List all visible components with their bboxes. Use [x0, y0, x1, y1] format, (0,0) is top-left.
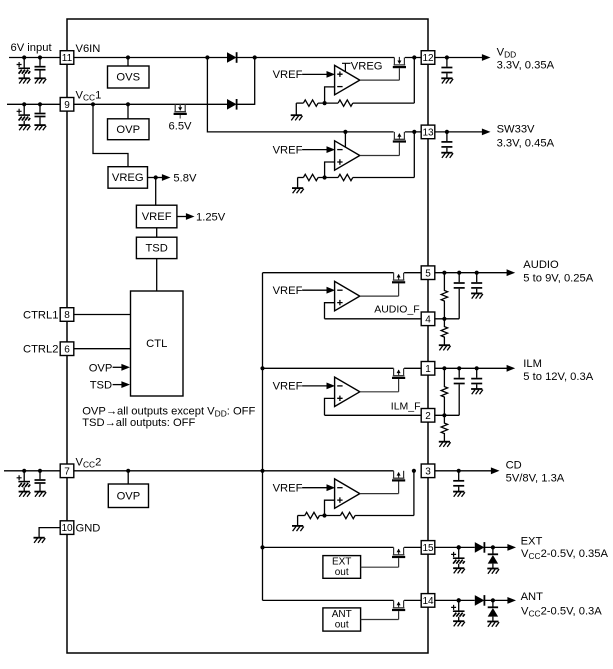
wire diode1 to node A [237, 57, 395, 59]
node c2 [475, 271, 479, 275]
svg-text:VREG: VREG [112, 172, 144, 184]
svg-text:OVP: OVP [117, 490, 141, 502]
svg-text:2: 2 [425, 411, 431, 422]
wire VREG to VREF [155, 178, 157, 206]
wire VDD output [435, 57, 483, 59]
block VREG [108, 167, 148, 189]
wire op-amp output to gate CD [360, 493, 399, 495]
op-amp SW33V [335, 141, 360, 170]
wire SW33V output [435, 131, 483, 133]
wire CTRL1 [74, 314, 131, 316]
transistor output VDD [393, 58, 395, 65]
node divider tap CD [322, 513, 326, 517]
svg-text:CTRL1: CTRL1 [23, 309, 58, 321]
wire inverting input to divider [325, 87, 335, 103]
pin 8 [60, 308, 74, 322]
wire feedback pin2 [325, 414, 422, 416]
svg-text:14: 14 [422, 596, 434, 607]
ground divider SW [297, 178, 299, 188]
node feedback pin13 [412, 130, 416, 134]
block TSD [136, 237, 177, 258]
pin 9 [60, 98, 74, 112]
svg-text:5: 5 [425, 268, 431, 279]
svg-text:OVP: OVP [89, 362, 113, 374]
wire feedback vertical pin12 [413, 58, 415, 104]
wire non-inverting input from pin4 [325, 303, 335, 319]
node ant cap [457, 598, 461, 602]
node SW33V supply tap [205, 55, 209, 59]
svg-text:OVS: OVS [116, 72, 140, 84]
wire op-amp output to gate AUDIO [360, 295, 399, 297]
wire VREG output 5.8V [148, 177, 156, 179]
ground ILM R2 [439, 441, 450, 443]
svg-text:ILM_F: ILM_F [391, 400, 421, 412]
svg-text:VREF: VREF [142, 211, 172, 223]
block VREF [136, 205, 177, 228]
op-amp CD [335, 479, 360, 508]
pin 11 [60, 51, 74, 65]
block OVP 2 [108, 484, 148, 508]
pin 5 [421, 266, 435, 280]
svg-text:ANT: ANT [332, 609, 352, 620]
capacitor SW33V output [445, 130, 449, 134]
svg-text:AUDIO_F: AUDIO_F [374, 304, 420, 316]
svg-text:6V input: 6V input [11, 42, 53, 54]
wire SW33V supply [207, 58, 393, 132]
svg-text:V6IN: V6IN [76, 43, 101, 55]
diode D2 [227, 99, 237, 110]
svg-text:ILM: ILM [523, 358, 542, 370]
svg-text:8: 8 [64, 310, 70, 321]
svg-text:1: 1 [425, 364, 431, 375]
wire CTRL2 [74, 348, 131, 350]
wire feedback vertical pin3 [413, 471, 415, 516]
wire op-amp output to gate ILM [360, 391, 399, 393]
resistor AUDIO R1 [441, 273, 447, 319]
svg-text:CTRL2: CTRL2 [23, 344, 58, 356]
wire CD output [435, 470, 492, 472]
pin 6 [60, 342, 74, 356]
svg-text:EXT: EXT [332, 557, 351, 568]
node pin4 ext [442, 317, 446, 321]
wire pin14 to edge [404, 599, 421, 601]
pin 14 [421, 594, 435, 608]
resistor ILM R2 [441, 415, 447, 441]
wire non-inverting input to divider CD [325, 500, 335, 515]
capacitor AUDIO C1 [458, 273, 460, 283]
svg-text:VREF: VREF [273, 285, 303, 297]
node ext clamp [491, 545, 495, 549]
wire non-inverting input to divider [325, 162, 335, 178]
wire EXT out to gate [361, 566, 399, 568]
wire ANT output [435, 599, 475, 601]
node ext cap [457, 545, 461, 549]
svg-text:VREG: VREG [351, 61, 383, 73]
wire VREF output 1.25V [177, 216, 187, 218]
ground divider CD [297, 516, 299, 526]
svg-text:6.5V: 6.5V [169, 121, 193, 133]
node c1 [457, 271, 461, 275]
svg-text:VCC2: VCC2 [76, 456, 102, 469]
svg-text:1.25V: 1.25V [196, 211, 226, 223]
capacitor ILM C1 [458, 368, 460, 378]
transistor output EXT [393, 547, 395, 554]
pin 7 [60, 464, 74, 478]
wire pin15 to edge [404, 546, 421, 548]
svg-text:10: 10 [61, 523, 73, 534]
wire divider line SW [298, 177, 304, 179]
ground divider VDD [295, 103, 297, 115]
wire VREF to TSD [156, 228, 158, 237]
pin 10 [60, 521, 74, 535]
svg-text:3.3V, 0.35A: 3.3V, 0.35A [497, 59, 555, 71]
capacitor electrolytic C-vcc2a [22, 469, 26, 473]
wire pin5 to edge [404, 272, 421, 274]
wire diode2 to node A [237, 103, 255, 105]
wire pin12 to edge [405, 57, 421, 59]
capacitor electrolytic EXT [457, 545, 461, 549]
wire ILM supply [263, 367, 394, 369]
svg-text:out: out [335, 567, 349, 578]
wire TSD to CTL [156, 259, 158, 291]
svg-text:CD: CD [506, 459, 522, 471]
wire EXT supply [263, 546, 394, 548]
wire non-inverting input from pin2 [325, 398, 335, 415]
node supply to SW op-amp [343, 130, 347, 134]
pin 13 [421, 125, 435, 139]
wire EXT output [435, 546, 475, 548]
node EXT supply tap [260, 545, 264, 549]
node divider tap VDD [323, 101, 327, 105]
block OVP [108, 119, 150, 140]
wire op-amp output to gate SW [360, 155, 399, 157]
capacitor ceramic C-in2 [38, 55, 42, 59]
diode ANT clamp [492, 600, 494, 607]
capacitor AUDIO C2 [476, 273, 478, 283]
svg-text:13: 13 [422, 128, 434, 139]
resistor AUDIO R2 [441, 319, 447, 345]
transistor output ILM [393, 368, 395, 375]
svg-text:VCC1: VCC1 [76, 90, 102, 103]
op-amp AUDIO [335, 281, 360, 310]
node divider tap SW [323, 175, 327, 179]
capacitor ceramic C-in4 [38, 102, 42, 106]
IC outline box [67, 19, 428, 653]
pin 3 [421, 464, 435, 478]
diode D1 [227, 52, 237, 63]
diode ANT series [475, 595, 485, 606]
capacitor electrolytic C-in3 [22, 102, 26, 106]
svg-text:VCC2-0.5V, 0.3A: VCC2-0.5V, 0.3A [521, 606, 602, 619]
node ilm c1 [457, 366, 461, 370]
wire VCC2 input line [4, 470, 60, 472]
diode EXT clamp [492, 547, 494, 554]
svg-text:5.8V: 5.8V [173, 172, 197, 184]
wire ANT out to gate [361, 619, 399, 621]
capacitor ceramic C-vcc2b [38, 469, 42, 473]
wire pin2 external [435, 414, 460, 416]
svg-text:CTL: CTL [146, 338, 167, 350]
svg-text:TSD: TSD [90, 380, 112, 392]
capacitor electrolytic ANT [457, 598, 461, 602]
wire AUDIO output [435, 272, 508, 274]
svg-text:11: 11 [62, 53, 73, 64]
wire VCC1 to VREG [93, 104, 128, 166]
wire VCC2 rail [74, 470, 394, 472]
svg-text:9: 9 [64, 100, 70, 111]
node OVP2 tap [126, 469, 130, 473]
svg-text:VREF: VREF [273, 381, 303, 393]
wire feedback pin4 [325, 318, 422, 320]
wire pin4 external [435, 318, 460, 320]
wire pin13 to edge [405, 131, 421, 133]
capacitor electrolytic C-in1 [22, 55, 26, 59]
svg-text:GND: GND [76, 523, 101, 535]
wire divider line VDD [296, 102, 303, 104]
resistor ILM R1 [441, 368, 447, 415]
svg-text:EXT: EXT [521, 535, 543, 547]
block OVS [108, 66, 150, 88]
node bus junction CD [260, 469, 264, 473]
op-amp ILM [335, 377, 360, 406]
svg-text:3: 3 [425, 466, 431, 477]
wire supply bus [262, 273, 264, 601]
block CTL [131, 291, 184, 396]
transistor output ANT [393, 600, 395, 607]
wire feedback vertical pin13 [413, 132, 415, 178]
svg-text:TSD→all outputs: OFF: TSD→all outputs: OFF [82, 417, 195, 429]
pin 1 [421, 362, 435, 376]
wire pin1 to edge [404, 367, 421, 369]
transistor output SW33V [393, 132, 395, 139]
svg-text:VREF: VREF [273, 483, 303, 495]
wire V6IN rail [74, 57, 227, 59]
node r1 [442, 271, 446, 275]
wire VCC1 input line [7, 103, 60, 105]
diode EXT series [475, 542, 485, 553]
capacitor VDD output [445, 55, 449, 59]
node ant clamp [491, 598, 495, 602]
wire ILM output [435, 367, 508, 369]
node OVS tap [126, 55, 130, 59]
svg-text:VREF: VREF [273, 69, 303, 81]
svg-text:SW33V: SW33V [497, 124, 535, 136]
svg-text:5 to 12V, 0.3A: 5 to 12V, 0.3A [523, 371, 593, 383]
wire divider line CD [298, 515, 305, 517]
wire VCC1 rail [74, 103, 227, 105]
svg-text:5V/8V, 1.3A: 5V/8V, 1.3A [506, 473, 565, 485]
svg-text:7: 7 [64, 466, 70, 477]
svg-text:ANT: ANT [521, 591, 544, 603]
svg-text:5 to 9V, 0.25A: 5 to 9V, 0.25A [523, 272, 593, 284]
svg-text:4: 4 [425, 314, 431, 325]
svg-text:6: 6 [64, 344, 70, 355]
pin 10 wire GND [39, 528, 60, 538]
pin 15 [421, 541, 435, 555]
node A [253, 55, 257, 59]
wire V6IN input line [9, 57, 60, 59]
svg-text:12: 12 [422, 53, 434, 64]
wire AUDIO supply [263, 272, 394, 274]
node OVP tap [126, 102, 130, 106]
ground GND pin [34, 537, 45, 539]
transistor output CD [393, 471, 395, 478]
transistor 6.5V clamp [174, 104, 176, 111]
svg-text:OVP: OVP [116, 124, 140, 136]
svg-text:AUDIO: AUDIO [523, 259, 559, 271]
svg-text:TSD: TSD [145, 243, 167, 255]
svg-text:15: 15 [422, 543, 434, 554]
pin 2 [421, 409, 435, 423]
svg-text:3.3V, 0.45A: 3.3V, 0.45A [497, 137, 555, 149]
wire ANT supply [263, 599, 394, 601]
supply stub T on op-amp [342, 63, 351, 71]
op-amp VREG regulator [335, 65, 360, 94]
ground AUDIO R2 [439, 344, 450, 346]
svg-text:VCC2-0.5V, 0.35A: VCC2-0.5V, 0.35A [521, 548, 609, 561]
block ANT out [323, 608, 361, 631]
node VREG tap [91, 102, 95, 106]
block EXT out [323, 556, 361, 579]
node ilm c2 [475, 366, 479, 370]
node pin2 ext [442, 413, 446, 417]
wire after diode [484, 546, 508, 548]
pin 12 [421, 51, 435, 65]
wire op-amp output to gate [360, 79, 399, 81]
svg-text:VDD: VDD [497, 47, 517, 60]
node feedback pin12 [412, 55, 416, 59]
node feedback pin3 [412, 469, 416, 473]
node ILM supply tap [260, 366, 264, 370]
capacitor ILM C2 [476, 368, 478, 378]
transistor output AUDIO [393, 273, 395, 280]
pin 4 [421, 312, 435, 326]
node ilm r1 [442, 366, 446, 370]
svg-text:out: out [335, 620, 349, 631]
capacitor CD output [457, 469, 461, 473]
wire after diode ANT [484, 599, 508, 601]
svg-text:VREF: VREF [273, 144, 303, 156]
